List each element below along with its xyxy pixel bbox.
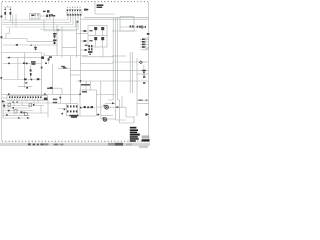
hbridge fet Q4 [73,105,75,107]
connector J2 pin heads [67,10,68,11]
oring internal wire [81,107,95,109]
title block [130,127,150,142]
wire y115.7 [3,115,30,117]
filter cap 2 [34,14,36,20]
right vertical bus 3 [117,17,119,100]
driver IC fet A2 [101,27,104,30]
y79 comp c right [37,78,40,80]
wire crystal feed [143,65,145,70]
actuator M2 core [104,119,105,120]
connector P1 second row [9,98,44,100]
junction label x77 [77,21,79,23]
wire center y79.5 [3,79,42,81]
mark near box2 [33,104,34,106]
chain stems [30,65,32,80]
oring internal comp c [91,106,93,108]
series comp U body [54,35,56,37]
rail tick [7,5,9,7]
label B left edge [1,36,3,38]
arrow into box y41 [84,40,88,42]
connector J2 fanout drops [68,15,81,29]
vertical x90.5 feed [90,81,92,90]
wire left of connector [2,97,7,99]
hbridge feeds [60,94,62,103]
node dot D2 [10,9,11,10]
hbridge fet Q7 [70,110,72,112]
oring text lower [82,91,87,93]
wire hbridge left stubs [58,104,67,109]
driver box outline [88,26,107,48]
label on y30.8 line [57,29,60,30]
choke dark mark 1 [46,15,48,17]
filter label [31,15,34,16]
filter box outline [30,14,41,20]
dark bottom mark [8,110,10,112]
wire TVS2 drop [9,7,11,22]
hbridge fet Q3 [70,105,72,107]
small box comp 3 [24,112,27,115]
net arrow A [84,9,89,11]
input arrow [2,100,5,102]
wire relay row [120,26,145,28]
vertical x76.5 [76,20,78,58]
wire label box bottom [95,13,115,15]
border tick row top [2,1,148,3]
wire relay row lower [112,30,137,32]
right ladder box [146,38,149,49]
mark right of oring box [97,114,99,116]
hbridge fet Q9 [76,110,78,112]
wire bottom y113 [3,112,48,114]
comp at x41 y58 [41,56,44,59]
wire right y74 [137,73,149,75]
connector J2 body outline [66,9,82,15]
mark oring edge [80,107,82,109]
title row 7 [130,140,136,142]
small box comp 1 [8,104,11,107]
cluster diode row2 b [91,48,93,50]
wire aux vertical A [12,15,14,25]
hanging comp stem [35,45,37,47]
wire center top y47.5 [62,47,77,49]
junction J2 blob [50,87,53,89]
diode label italic [61,66,65,67]
lower ladder mark b [6,114,8,115]
wire center y63.5 [3,63,42,65]
label C left edge [1,77,3,79]
wire stub y30.8 [44,30,77,32]
driver label A [90,30,93,31]
vertical x41 drop [40,106,42,114]
connector bottom drops [10,101,38,106]
toolbar progress segment [108,143,123,146]
wire right y56 [112,55,126,57]
label A left edge [1,16,3,18]
y79 comp b [31,79,33,81]
sensor S2 stem [48,61,50,64]
hbridge fet Q2 [67,105,69,107]
title side text [142,136,150,139]
wire y118 [3,117,30,119]
wire arrow feed y41 [81,40,88,42]
arrow label right of choke [53,15,55,17]
net labels right of connector row2 [53,102,57,104]
motor wires [96,103,112,107]
oring text upper [81,84,90,86]
label box left edge [94,2,96,14]
right ladder rung 2 [140,41,149,43]
actuator M2 wire [107,118,116,120]
filter cap 1 [31,14,33,20]
vertical x137 [136,58,138,116]
crystal Y1 tick [144,74,145,75]
sensor S2 body [48,58,50,60]
wire stair y20 [3,19,69,21]
ladder contact 4 [142,46,145,48]
wire mid-left y57.5 [6,53,88,58]
status toolbar [0,143,150,146]
y79 comp a [24,78,27,80]
toolbar progress dark part [115,143,123,146]
label FL1 [43,11,46,12]
vertical x70.5 [69,56,71,104]
title row 1 [130,127,137,129]
border frame left edge [0,2,2,141]
driver label B [90,40,93,41]
oring internal comp b [87,106,89,108]
vertical drop x44 [43,19,45,31]
right ladder rung 4 [140,46,149,48]
crystal Y1 body [143,71,145,73]
actuator M2 label [102,117,104,118]
actuator M2 [103,118,106,121]
right bend wires [96,95,134,124]
cluster R4R5 bodies [31,63,35,65]
darker components layer [1,4,150,121]
driver IC fet A1 [94,27,97,30]
mark on x41.5 [41,67,43,69]
right small mark 1 [143,76,145,78]
net label text row2 [97,7,103,9]
wire stair y22.3 [3,21,71,23]
wire diamond right [143,61,149,63]
relay K1 contacts [130,26,132,28]
connector J2 pin stems [68,9,81,14]
wire right y62 [112,61,140,63]
hanging comp below y45 [34,47,37,48]
wire arrow feed y31 [81,30,88,32]
oring internal comp a [84,106,86,108]
ecu box outline [120,17,134,32]
junction dot x80 y94 [79,94,80,95]
wire arrow feed y50 [81,49,88,51]
series comp L body [54,42,56,44]
right vertical bus 2 [114,17,116,120]
wire center y63.5 mid [81,63,114,65]
cluster diode row2 a [88,48,90,50]
diamond node [139,61,142,64]
hbridge gnd bar [70,115,79,117]
wire into box y33.7 [77,33,89,35]
wire mid-left step [6,28,10,39]
toolbar faint marks mid-right [126,144,132,146]
oring box outline [80,90,96,116]
connector J2 pin pads [67,14,69,16]
wire bottom y105.5 [3,105,44,107]
wire mid-left y45 [3,44,59,46]
vertical x57 [56,25,58,56]
right vertical bus 1 [112,17,114,100]
junction dot y94 [8,93,10,95]
wire y81 long [77,80,149,82]
connector P1 pin row [9,96,42,98]
right ladder rung 3 [140,44,149,46]
wire right y100.3 [137,99,149,101]
wire bottom-left y94.3 [2,93,80,95]
wire aux vertical B [15,15,17,28]
hbridge fet Q5 [76,105,78,107]
TVS diode D1 [4,12,6,15]
series comp L label [53,40,57,42]
vertical x103 below box [102,47,104,57]
wire stair y24.6 [3,24,74,26]
driver internal stubs [96,30,103,47]
cluster bottom dot [89,54,91,55]
junction dot y81 [80,80,82,82]
connector P1 end blob [44,98,48,100]
title row 2 [130,129,138,131]
node dot D1 [5,9,6,10]
net labels right of connector row1 [53,99,57,101]
lower ladder box [14,110,17,114]
right small mark 2 [143,82,145,84]
relay K2 contacts [137,26,139,28]
vertical x3 [2,103,4,118]
wire bottom y103 [3,102,58,104]
small box comp 2 [29,103,32,106]
vertical x100.8 feed [101,81,103,119]
driver IC fet B2 [101,37,104,40]
hbridge grid box [67,104,78,116]
wire mid-left y41.3 [27,40,53,42]
hbridge fet Q6 [67,110,69,112]
right ladder rung 1 [140,38,149,40]
title row 6 [130,138,139,140]
diode D7 body [63,67,66,69]
right edge mark [147,33,150,35]
lamp circle [141,26,143,28]
vertical x48 drop [47,101,49,118]
mark x60 top [59,97,61,99]
driver IC fet B1 [94,37,97,40]
motor M1 [105,105,109,109]
title row 4 [130,134,140,136]
right ladder rung 5 [141,49,149,51]
choke dark mark 2 [49,14,51,16]
net label text row1 [97,4,104,6]
vertical chain R6 [30,73,32,76]
driver box divider [88,35,107,37]
title row 5 [130,136,138,138]
vertical drop x53.5 [53,17,55,31]
cluster wide mark [88,51,93,53]
lower ladder mark a [13,107,15,109]
cluster diode row1 a [88,45,90,47]
border frame right edge [148,2,150,141]
motor arrow up [112,102,115,104]
sensor R3 y63 [26,63,28,65]
toolbar marks left [28,143,63,145]
cluster diode row1 b [91,45,93,47]
series comp U label [53,33,57,35]
lower ladder mark c [18,117,20,118]
filter cap 3 [37,14,39,20]
TVS diode D2 [10,12,12,15]
title row 3 [130,132,137,134]
bottom cluster marks [20,111,22,113]
right fat arrow [146,113,149,116]
sensor S2 dash [45,63,47,64]
ladder contact 3 [142,44,145,46]
motor arrow low [117,106,120,108]
border tick row bottom [2,140,148,142]
junction J1 blob [26,87,28,89]
wire bottom y108 [3,107,30,109]
wire mid-left y52.5 [1,52,41,54]
junction J2 dash [47,88,49,89]
wire end tick [145,26,146,28]
junction J1 label [25,82,27,83]
diode D5 on y45 [16,44,18,46]
wire network (light) [1,2,148,123]
wire stair y29.4 [40,28,78,30]
arrow into box y31 [84,30,88,32]
wire right bottom arrow line [137,103,149,105]
bus line y19.2 [81,18,149,20]
wire center y70.3 long [70,69,148,71]
wire TVS1 drop [4,7,6,20]
wire mid-left y38.5 [3,39,28,42]
junction dash y94 mid [44,93,46,95]
wire under D7 [58,68,70,70]
right arrow dash [139,100,143,101]
junction dot y45 [31,45,32,46]
vertical x25 [24,53,26,89]
cluster labels below box [85,45,88,46]
vertical chain D6 [30,70,32,72]
wire stair y27 [6,26,76,28]
mark on y63 line left [8,63,10,65]
hbridge fet Q8 [73,110,75,112]
bus line y17.4 [84,16,149,18]
vertical x41.5 [41,53,43,96]
dash on y57.7 [8,57,10,58]
crystal Y1 top bar [142,70,146,71]
inductor L1 body [47,14,50,20]
ladder contact 1 [142,38,145,40]
wire choke link [40,15,52,17]
vertical x52.3 lower [51,64,53,95]
zoom text below bar [139,146,148,148]
connector J2 pin ticks [67,6,80,9]
series chain stems x54.3 [53,31,55,45]
wire under motor [101,115,113,117]
mark left of hbridge [64,109,66,111]
wire bottom y110.5 [3,110,33,112]
mark x62 bottom [62,113,64,115]
right box verticals [130,52,132,93]
title side dark bar [142,139,150,141]
wire y75 stub [70,74,80,76]
cluster R4R5 labels [31,61,36,63]
bottom connector box [7,96,48,101]
fuse F1 body [47,10,49,12]
motor M1 label [103,105,105,106]
vertical x86 feed [85,81,87,90]
vertical x18 [17,58,19,80]
rail bar top-left [4,6,12,8]
dark mark left [3,105,5,107]
tiny labels above y103 [12,102,14,103]
ladder contact 2 [142,41,145,43]
vertical x80.5 [80,19,82,94]
arrow into cluster y50 [85,49,88,51]
vertical x62 [61,27,63,58]
sensor label y63 a [23,62,25,64]
lower ladder mark d [27,117,29,118]
wire center y57 mid [82,56,113,58]
right arrow head [146,99,149,101]
sensor S2 label [49,56,52,58]
wire X to x62 [18,87,62,95]
choke dark mark 3 [51,14,53,16]
motor M1 core [106,107,108,109]
